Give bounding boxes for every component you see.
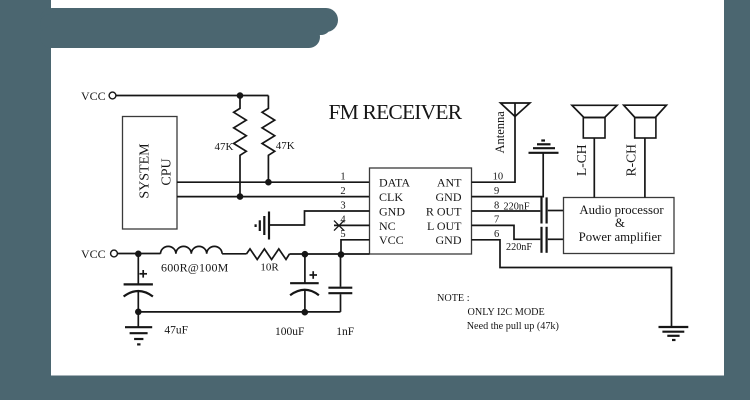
- wire VCC1 rail: [116, 95, 269, 97]
- pin number 4: [340, 215, 346, 226]
- capacitor C4 value label 220nF: [504, 202, 530, 213]
- resistor R2 47K right: [262, 96, 275, 182]
- svg-text:Need the pull up (47k): Need the pull up (47k): [467, 321, 559, 332]
- audio processor block label: [579, 203, 665, 244]
- pin number 8: [494, 200, 499, 211]
- node junction dot C1 bottom: [135, 309, 142, 316]
- wire pin7 LOUT to C5: [472, 225, 541, 239]
- svg-text:&: &: [615, 216, 625, 230]
- svg-text:100uF: 100uF: [275, 326, 304, 338]
- node junction dot C2 bottom: [302, 309, 309, 316]
- speaker LS2 R-CH: [624, 105, 667, 138]
- node junction dot top of R1: [237, 92, 244, 99]
- pin number 2: [340, 186, 345, 197]
- wire pin10 ANT to antenna: [472, 117, 516, 183]
- svg-text:VCC: VCC: [81, 247, 106, 261]
- capacitor C2 value label 100uF: [275, 326, 304, 338]
- wire pin4 NC stub: [334, 224, 370, 226]
- svg-text:DATA: DATA: [379, 176, 410, 190]
- title FM RECEIVER: [329, 100, 463, 124]
- VCC terminal 1 circle: [109, 92, 116, 99]
- ground G2 inverted above pin9: [529, 141, 559, 153]
- svg-text:SYSTEM: SYSTEM: [138, 143, 153, 199]
- antenna symbol: [501, 103, 530, 117]
- speaker LS1 L-CH: [572, 105, 617, 138]
- no-connect X mark on pin4: [334, 221, 344, 231]
- wire bottom rail: [138, 311, 340, 313]
- svg-text:GND: GND: [379, 204, 405, 218]
- capacitor C3 1nF: [328, 255, 352, 312]
- VCC terminal 2 circle: [111, 250, 118, 257]
- svg-text:L-CH: L-CH: [574, 144, 589, 176]
- svg-text:9: 9: [494, 186, 499, 197]
- svg-text:5: 5: [340, 229, 345, 240]
- wire inductor to 10R: [222, 253, 246, 255]
- svg-text:R-CH: R-CH: [624, 144, 639, 177]
- capacitor C1 polarity plus: [140, 270, 148, 278]
- svg-text:47K: 47K: [276, 140, 295, 152]
- svg-text:CLK: CLK: [379, 190, 403, 204]
- marker scribble blob top-left: [40, 8, 338, 48]
- svg-text:47uF: 47uF: [164, 325, 188, 337]
- capacitor C3 value label 1nF: [336, 326, 354, 338]
- resistor R2 value label 47K: [276, 140, 295, 152]
- capacitor C5 value label 220nF: [506, 242, 532, 253]
- inductor L1 600R@100M: [161, 246, 223, 253]
- capacitor C1 value label 47uF: [164, 325, 188, 337]
- pin number 7: [494, 215, 499, 226]
- svg-text:Antenna: Antenna: [493, 111, 507, 154]
- wire pin6 GND to ground G3: [472, 240, 672, 327]
- svg-text:VCC: VCC: [81, 89, 106, 103]
- svg-text:R OUT: R OUT: [426, 204, 462, 218]
- SYSTEM CPU block label: [138, 143, 175, 199]
- ground G3 bottom right: [659, 327, 689, 340]
- speaker LS2 label R-CH: [624, 144, 639, 177]
- resistor R3 10R: [246, 249, 289, 260]
- resistor R1 value label 47K: [215, 141, 234, 153]
- pin number 10: [493, 172, 504, 183]
- wire LS2 to audio box: [644, 138, 646, 198]
- ground sideways at pin3: [256, 212, 269, 240]
- capacitor C2 100uF electrolytic: [290, 254, 319, 312]
- svg-text:VCC: VCC: [379, 233, 404, 247]
- pin number 3: [340, 200, 345, 211]
- svg-text:2: 2: [340, 186, 345, 197]
- antenna label: [493, 111, 507, 154]
- svg-text:NC: NC: [379, 219, 396, 233]
- svg-text:FM RECEIVER: FM RECEIVER: [329, 100, 463, 124]
- svg-text:ONLY I2C MODE: ONLY I2C MODE: [468, 307, 545, 318]
- U1 left pin names: [379, 176, 410, 248]
- resistor R1 47K left: [234, 98, 247, 196]
- VCC terminal 2 label: [81, 247, 106, 261]
- svg-text:NOTE :: NOTE :: [437, 293, 470, 304]
- svg-text:1: 1: [340, 172, 345, 183]
- svg-text:Power amplifier: Power amplifier: [579, 230, 663, 244]
- node junction dot R1 to CLK line: [237, 193, 244, 200]
- capacitor C2 polarity plus: [310, 271, 318, 279]
- capacitor C5 220nF: [542, 227, 547, 253]
- svg-text:3: 3: [340, 200, 345, 211]
- speaker LS1 label L-CH: [574, 144, 589, 176]
- resistor R3 value label 10R: [260, 262, 279, 274]
- wire VCC2 to inductor: [117, 253, 160, 255]
- node junction dot C1 tap: [135, 251, 142, 258]
- SYSTEM CPU block: [123, 117, 178, 230]
- wire pin8 ROUT to C4: [472, 210, 541, 212]
- svg-text:L OUT: L OUT: [427, 219, 462, 233]
- svg-text:1nF: 1nF: [336, 326, 354, 338]
- svg-text:GND: GND: [436, 233, 462, 247]
- pin number 6: [494, 229, 499, 240]
- node junction dot R2 to DATA line: [265, 179, 272, 186]
- audio processor block: [564, 198, 675, 254]
- svg-text:600R@100M: 600R@100M: [161, 261, 229, 275]
- wire 10R to U1 VCC rail: [289, 253, 369, 255]
- wire pin5 VCC down to rail: [341, 240, 370, 255]
- pin number 9: [494, 186, 499, 197]
- note text: [437, 293, 559, 332]
- U1 right pin names: [426, 176, 462, 248]
- wire CLK line CPU to U1: [177, 196, 370, 198]
- ground G1 below C1: [125, 312, 152, 345]
- capacitor C1 47uF electrolytic: [124, 254, 153, 312]
- wire pin9 GND up to ground: [472, 153, 544, 197]
- svg-text:220nF: 220nF: [506, 242, 532, 253]
- wire C4 to audio box: [548, 210, 564, 212]
- svg-text:GND: GND: [436, 190, 462, 204]
- svg-text:7: 7: [494, 215, 499, 226]
- svg-text:10: 10: [493, 172, 504, 183]
- svg-text:10R: 10R: [260, 262, 279, 274]
- svg-text:47K: 47K: [215, 141, 234, 153]
- capacitor C4 220nF: [542, 197, 547, 223]
- FM receiver IC U1: [370, 168, 472, 254]
- pin number 5: [340, 229, 345, 240]
- wire pin3 GND to side ground: [270, 211, 370, 225]
- svg-text:6: 6: [494, 229, 499, 240]
- wire DATA line CPU to U1: [177, 181, 370, 183]
- wire LS1 to audio box: [593, 138, 595, 198]
- svg-text:CPU: CPU: [160, 158, 175, 185]
- node junction dot pin5 rail: [338, 251, 345, 258]
- inductor L1 value label 600R@100M: [161, 261, 229, 275]
- svg-text:8: 8: [494, 200, 499, 211]
- pin number 1: [340, 172, 345, 183]
- node junction dot C2 tap: [302, 251, 309, 258]
- wire C5 to audio box: [548, 238, 564, 240]
- svg-text:ANT: ANT: [437, 176, 462, 190]
- VCC terminal 1 label: [81, 89, 106, 103]
